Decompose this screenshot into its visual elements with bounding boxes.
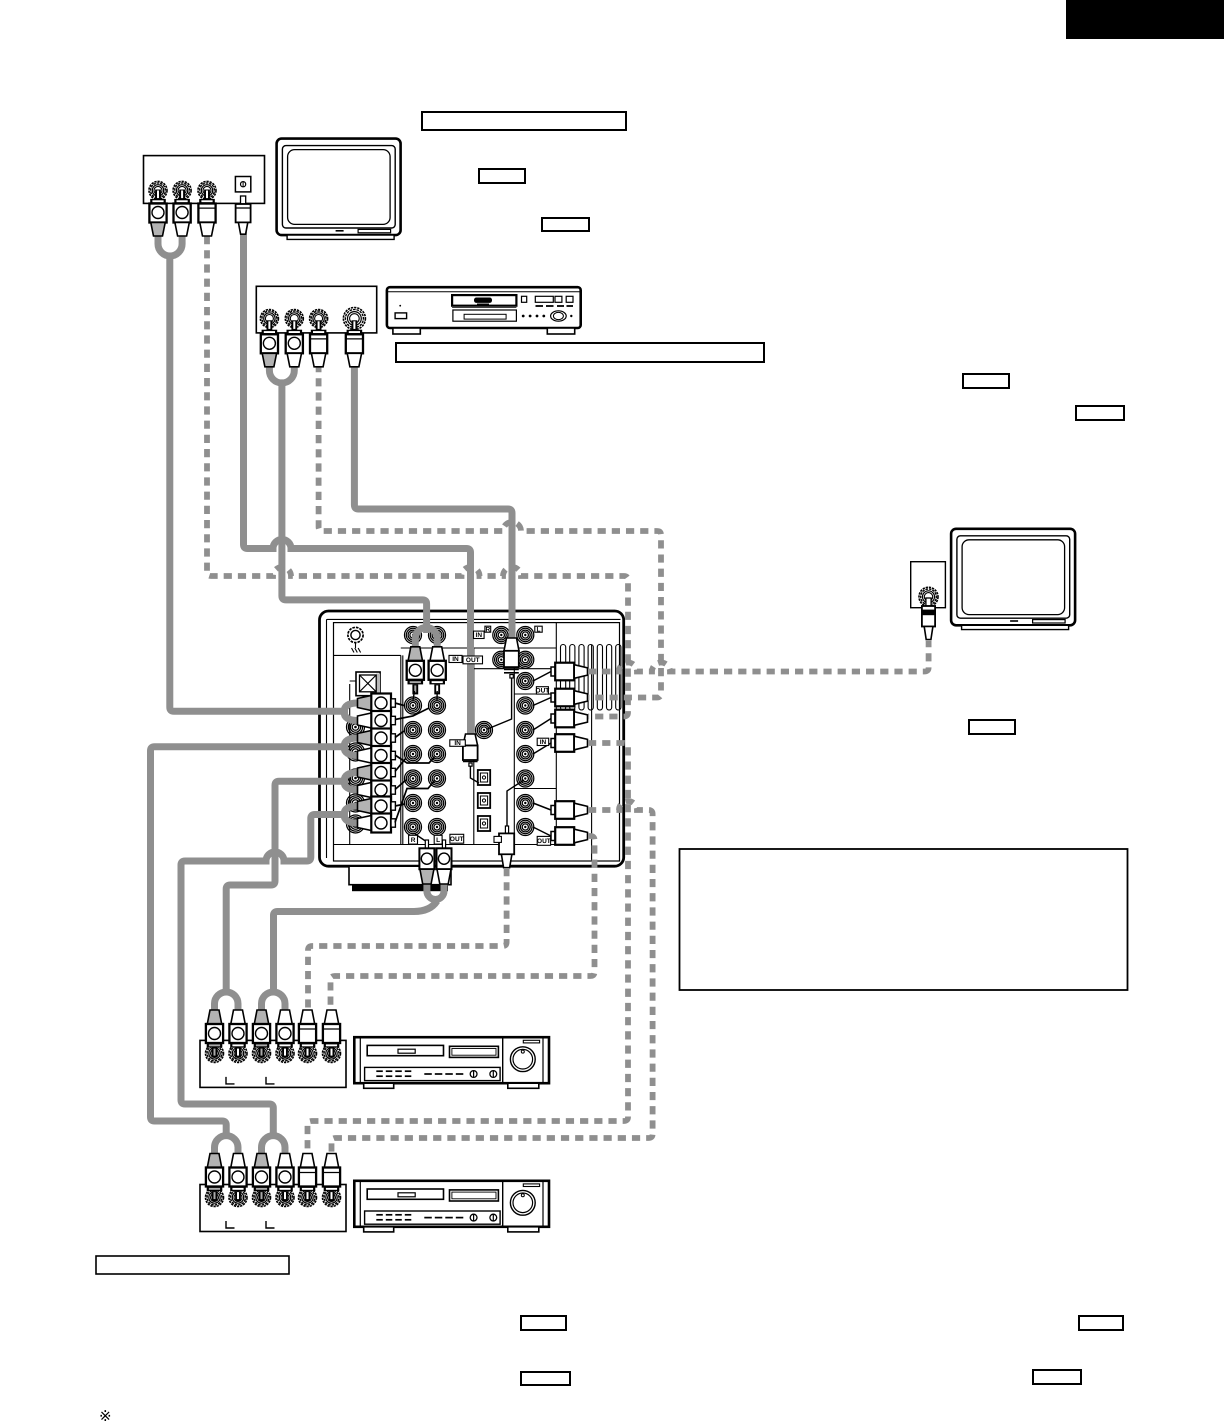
DVD audio out jack R — [260, 310, 278, 328]
right TV video plug — [922, 598, 935, 640]
svg-text:OUT: OUT — [466, 657, 480, 664]
svg-text:IN: IN — [454, 740, 461, 747]
DVD S-video cable plug — [352, 320, 358, 330]
svg-text:OUT: OUT — [537, 838, 551, 845]
VCR-2 front view — [354, 1181, 549, 1232]
svg-text:L: L — [436, 837, 440, 844]
dashed cable: receiver bottom video plug to VCR1 video (plug G) — [308, 868, 507, 1008]
cable: receiver VCR1 audio out pair (solid) — [344, 773, 358, 791]
VCR-1 rear connection panel — [200, 1040, 346, 1087]
label box (DVD player caption) — [396, 343, 764, 362]
label box (bottom middle 2) — [521, 1372, 570, 1385]
DVD audio plug L — [291, 320, 297, 330]
label box (right 2) — [1076, 406, 1124, 420]
svg-text:R: R — [411, 837, 416, 844]
cable: DVD S-video to receiver (solid) — [354, 360, 512, 640]
label box (small, under top box) — [479, 169, 525, 183]
svg-text:R: R — [485, 626, 490, 633]
TV S-video out jack — [235, 177, 250, 192]
cable: DVD audio pair to receiver (solid) — [269, 360, 294, 383]
receiver video jack column — [517, 673, 534, 690]
label box (bottom middle 1) — [521, 1316, 566, 1330]
receiver VCR1 audio-out bottom plugs — [415, 834, 443, 841]
svg-text:IN: IN — [476, 632, 483, 639]
TV monitor front (right) — [951, 529, 1075, 630]
S-video plug (from TV) — [463, 734, 479, 783]
TV rear connection panel (top left) — [144, 156, 265, 204]
label box (small 2) — [542, 218, 589, 231]
S-video plug (from DVD) — [487, 638, 519, 729]
DVD S-video out jack — [343, 308, 365, 330]
receiver panel labels — [449, 655, 462, 662]
cable: TV S-video to receiver (solid, with hop) — [244, 230, 471, 741]
TV monitor front (top left) — [277, 139, 401, 240]
svg-text:OUT: OUT — [450, 836, 464, 843]
dashed cable: TV video out to receiver video in (plug C) — [207, 236, 628, 717]
label box (right 1) — [963, 374, 1009, 388]
svg-text:※: ※ — [99, 1408, 112, 1424]
AV receiver rear panel body — [320, 611, 624, 866]
svg-text:OUT: OUT — [536, 688, 550, 695]
TV video plug — [204, 190, 210, 200]
TV video out jack — [198, 181, 216, 199]
speaker terminal strip — [561, 645, 566, 711]
svg-text:L: L — [537, 626, 541, 633]
TV audio out jack R — [149, 181, 167, 199]
note box (large, right) — [680, 849, 1128, 990]
receiver internal panel lines — [334, 623, 592, 861]
cable split at VCR1 audio-in pair — [215, 992, 239, 1013]
cable: receiver VCR1 audio in pair from bottom jacks (solid) — [427, 878, 444, 900]
antenna ground terminal — [348, 627, 363, 652]
TV S-video plug — [236, 196, 251, 234]
TV audio plug R — [155, 190, 161, 200]
right TV video input jack — [919, 587, 938, 606]
bottom video plug (to VCR1 video in) — [499, 780, 524, 868]
VCR-1 panel marks — [226, 1077, 235, 1084]
cable split at VCR2 audio-in pair — [215, 1136, 239, 1156]
svg-text:IN: IN — [452, 656, 459, 663]
dashed cable: receiver monitor out to right TV (plug A) — [588, 641, 929, 672]
receiver tv-audio input plugs (left stack rows 1-8) — [358, 694, 396, 713]
receiver tape in/out jacks — [493, 627, 510, 644]
label box (right TV caption) — [969, 720, 1015, 734]
right TV rear panel — [911, 562, 946, 608]
cable: receiver VCR2 audio out pair (solid) — [344, 738, 358, 756]
dashed cable: receiver to VCR2 video (plug D) — [308, 743, 629, 1152]
TV audio plug L — [179, 190, 185, 200]
VCR-1 front view — [354, 1037, 549, 1088]
S-video monitor-out jack (receiver, top-left block) — [350, 672, 380, 696]
partially hidden jacks behind left plug stack — [347, 718, 365, 736]
page header black bar — [1066, 0, 1224, 39]
VCR-2 rear connection panel — [200, 1185, 346, 1232]
label box (bottom right 1) — [1079, 1316, 1123, 1330]
cable loop at receiver tv-audio inputs — [344, 703, 358, 721]
DVD rear connection panel — [256, 286, 376, 333]
DVD video plug — [316, 320, 322, 330]
dashed cable: DVD video out to receiver (plug B) — [319, 364, 661, 698]
receiver pedestal — [349, 866, 451, 885]
leader lines from plug tips to jacks — [395, 703, 435, 823]
DVD player front view — [387, 287, 581, 334]
VCR-1 jacks — [206, 1044, 224, 1062]
label box (top, wide) — [422, 112, 626, 130]
VCR1 plugs — [207, 1010, 221, 1024]
receiver audio jack grid — [405, 627, 422, 644]
cable: receiver VCR2 audio in pair (solid, hops VCR1 line) — [344, 806, 358, 823]
svg-text:IN: IN — [540, 739, 547, 746]
VCR-2 panel marks — [226, 1221, 235, 1228]
TV audio out jack L — [173, 181, 191, 199]
receiver video side plugs with leaders — [533, 672, 551, 682]
receiver S-video jacks (middle column) — [478, 770, 490, 785]
label box (bottom right 2) — [1033, 1370, 1081, 1384]
label box (bottom left caption) — [96, 1256, 289, 1274]
DVD audio input plugs on receiver top — [408, 647, 422, 661]
DVD audio plug R — [267, 320, 273, 330]
receiver monitor video jack — [476, 722, 493, 739]
dashed cable: receiver to VCR2 video 2 (plug E) — [332, 801, 653, 1152]
VCR-2 jacks — [206, 1189, 224, 1207]
DVD audio out jack L — [285, 310, 303, 328]
dashed cable: receiver to VCR1 video 2 (plug F) — [331, 836, 595, 1008]
DVD video out jack — [310, 310, 328, 328]
cable: TV audio pair to receiver (solid) — [158, 226, 182, 256]
